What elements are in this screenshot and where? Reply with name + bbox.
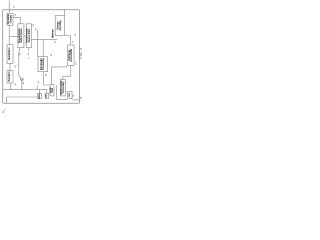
svg-text:Processing: Processing (62, 81, 65, 93)
block BE (67, 91, 72, 98)
svg-text:Decoding: Decoding (59, 20, 62, 30)
block B7 entropy decoding (55, 16, 64, 36)
wire bottom-left L to BA (7, 97, 38, 103)
svg-text:Circuitry: Circuitry (9, 14, 12, 23)
wire top border to B7 (64, 10, 66, 16)
reference numerals (rotated like figure) (13, 5, 82, 99)
block BD motion compensation (60, 80, 65, 96)
wire bus branch to BA (39, 89, 41, 93)
block BC loop filter (50, 85, 54, 96)
wire B2 to B4 (24, 35, 26, 37)
wire adder to bus (21, 81, 23, 89)
wire RPB bottom down and left to BD (63, 66, 71, 80)
svg-text:FIG. 4: FIG. 4 (79, 48, 83, 59)
wire B3 to B5 (9, 64, 11, 71)
wire junction to B2 left (9, 35, 17, 37)
svg-text:Quantization: Quantization (8, 47, 11, 60)
block B4 inverse transform (26, 24, 31, 48)
svg-text:69: 69 (80, 97, 82, 99)
svg-text:51: 51 (55, 41, 57, 43)
wire antenna input (8, 1, 10, 14)
arrowheads (4, 23, 71, 94)
block BA (38, 93, 42, 98)
wire BE to right border (72, 99, 79, 101)
svg-text:Inverse Quant: Inverse Quant (20, 28, 23, 42)
wire B5 to bus (10, 83, 12, 89)
svg-text:Processing: Processing (42, 58, 45, 70)
tick on adder wire (18, 64, 19, 66)
node bus dot 1 (10, 89, 11, 90)
block RPB reference picture buffer (68, 45, 74, 66)
wire bus horizontal (4, 88, 47, 90)
block B6 intra prediction (38, 57, 48, 72)
wire B4 bottom stub (28, 48, 30, 52)
wire BC top up and over to RPB bottom left (51, 66, 66, 85)
outer system border (3, 10, 80, 104)
svg-text:Inverse Trans: Inverse Trans (28, 28, 31, 42)
adder circle (21, 78, 24, 81)
block text labels (rotated) (7, 14, 73, 99)
block B2 inverse quantization (18, 24, 24, 48)
handwritten mark bottom-left (1, 109, 5, 114)
svg-text:Ctrl: Ctrl (45, 94, 48, 98)
wire box6 left drop to bus (36, 85, 38, 89)
svg-text:Mem: Mem (38, 94, 41, 99)
svg-text:Filter: Filter (51, 88, 54, 93)
block B5 transform (7, 71, 13, 84)
node junction dot (9, 36, 10, 37)
wire B1 to B2 top (13, 17, 20, 23)
wire B2 down to adder (19, 48, 21, 79)
node dot on crossing (37, 39, 38, 40)
wire bus branch to BB (46, 89, 48, 93)
wire vertical into B6 left top (37, 30, 39, 57)
wire B6 bottom to BC (43, 72, 49, 85)
wire mid down to BE (56, 85, 67, 99)
block BB (45, 93, 49, 98)
svg-text:Bitstream: Bitstream (51, 29, 54, 38)
node bus dot 2 (21, 89, 22, 90)
wire B4 right bitstream out (32, 39, 57, 41)
block B1 receiver (7, 13, 13, 25)
wire B1 down to B3 (8, 25, 10, 44)
svg-text:Frame Buffer: Frame Buffer (70, 48, 73, 61)
wire into B6 top (42, 40, 44, 57)
svg-text:Out: Out (68, 93, 71, 97)
svg-text:Transform: Transform (8, 71, 11, 82)
wire B7 to RPB (64, 36, 70, 45)
block B3 quantizer (7, 45, 13, 64)
svg-text:71: 71 (73, 41, 75, 43)
adder plus (21, 79, 23, 81)
